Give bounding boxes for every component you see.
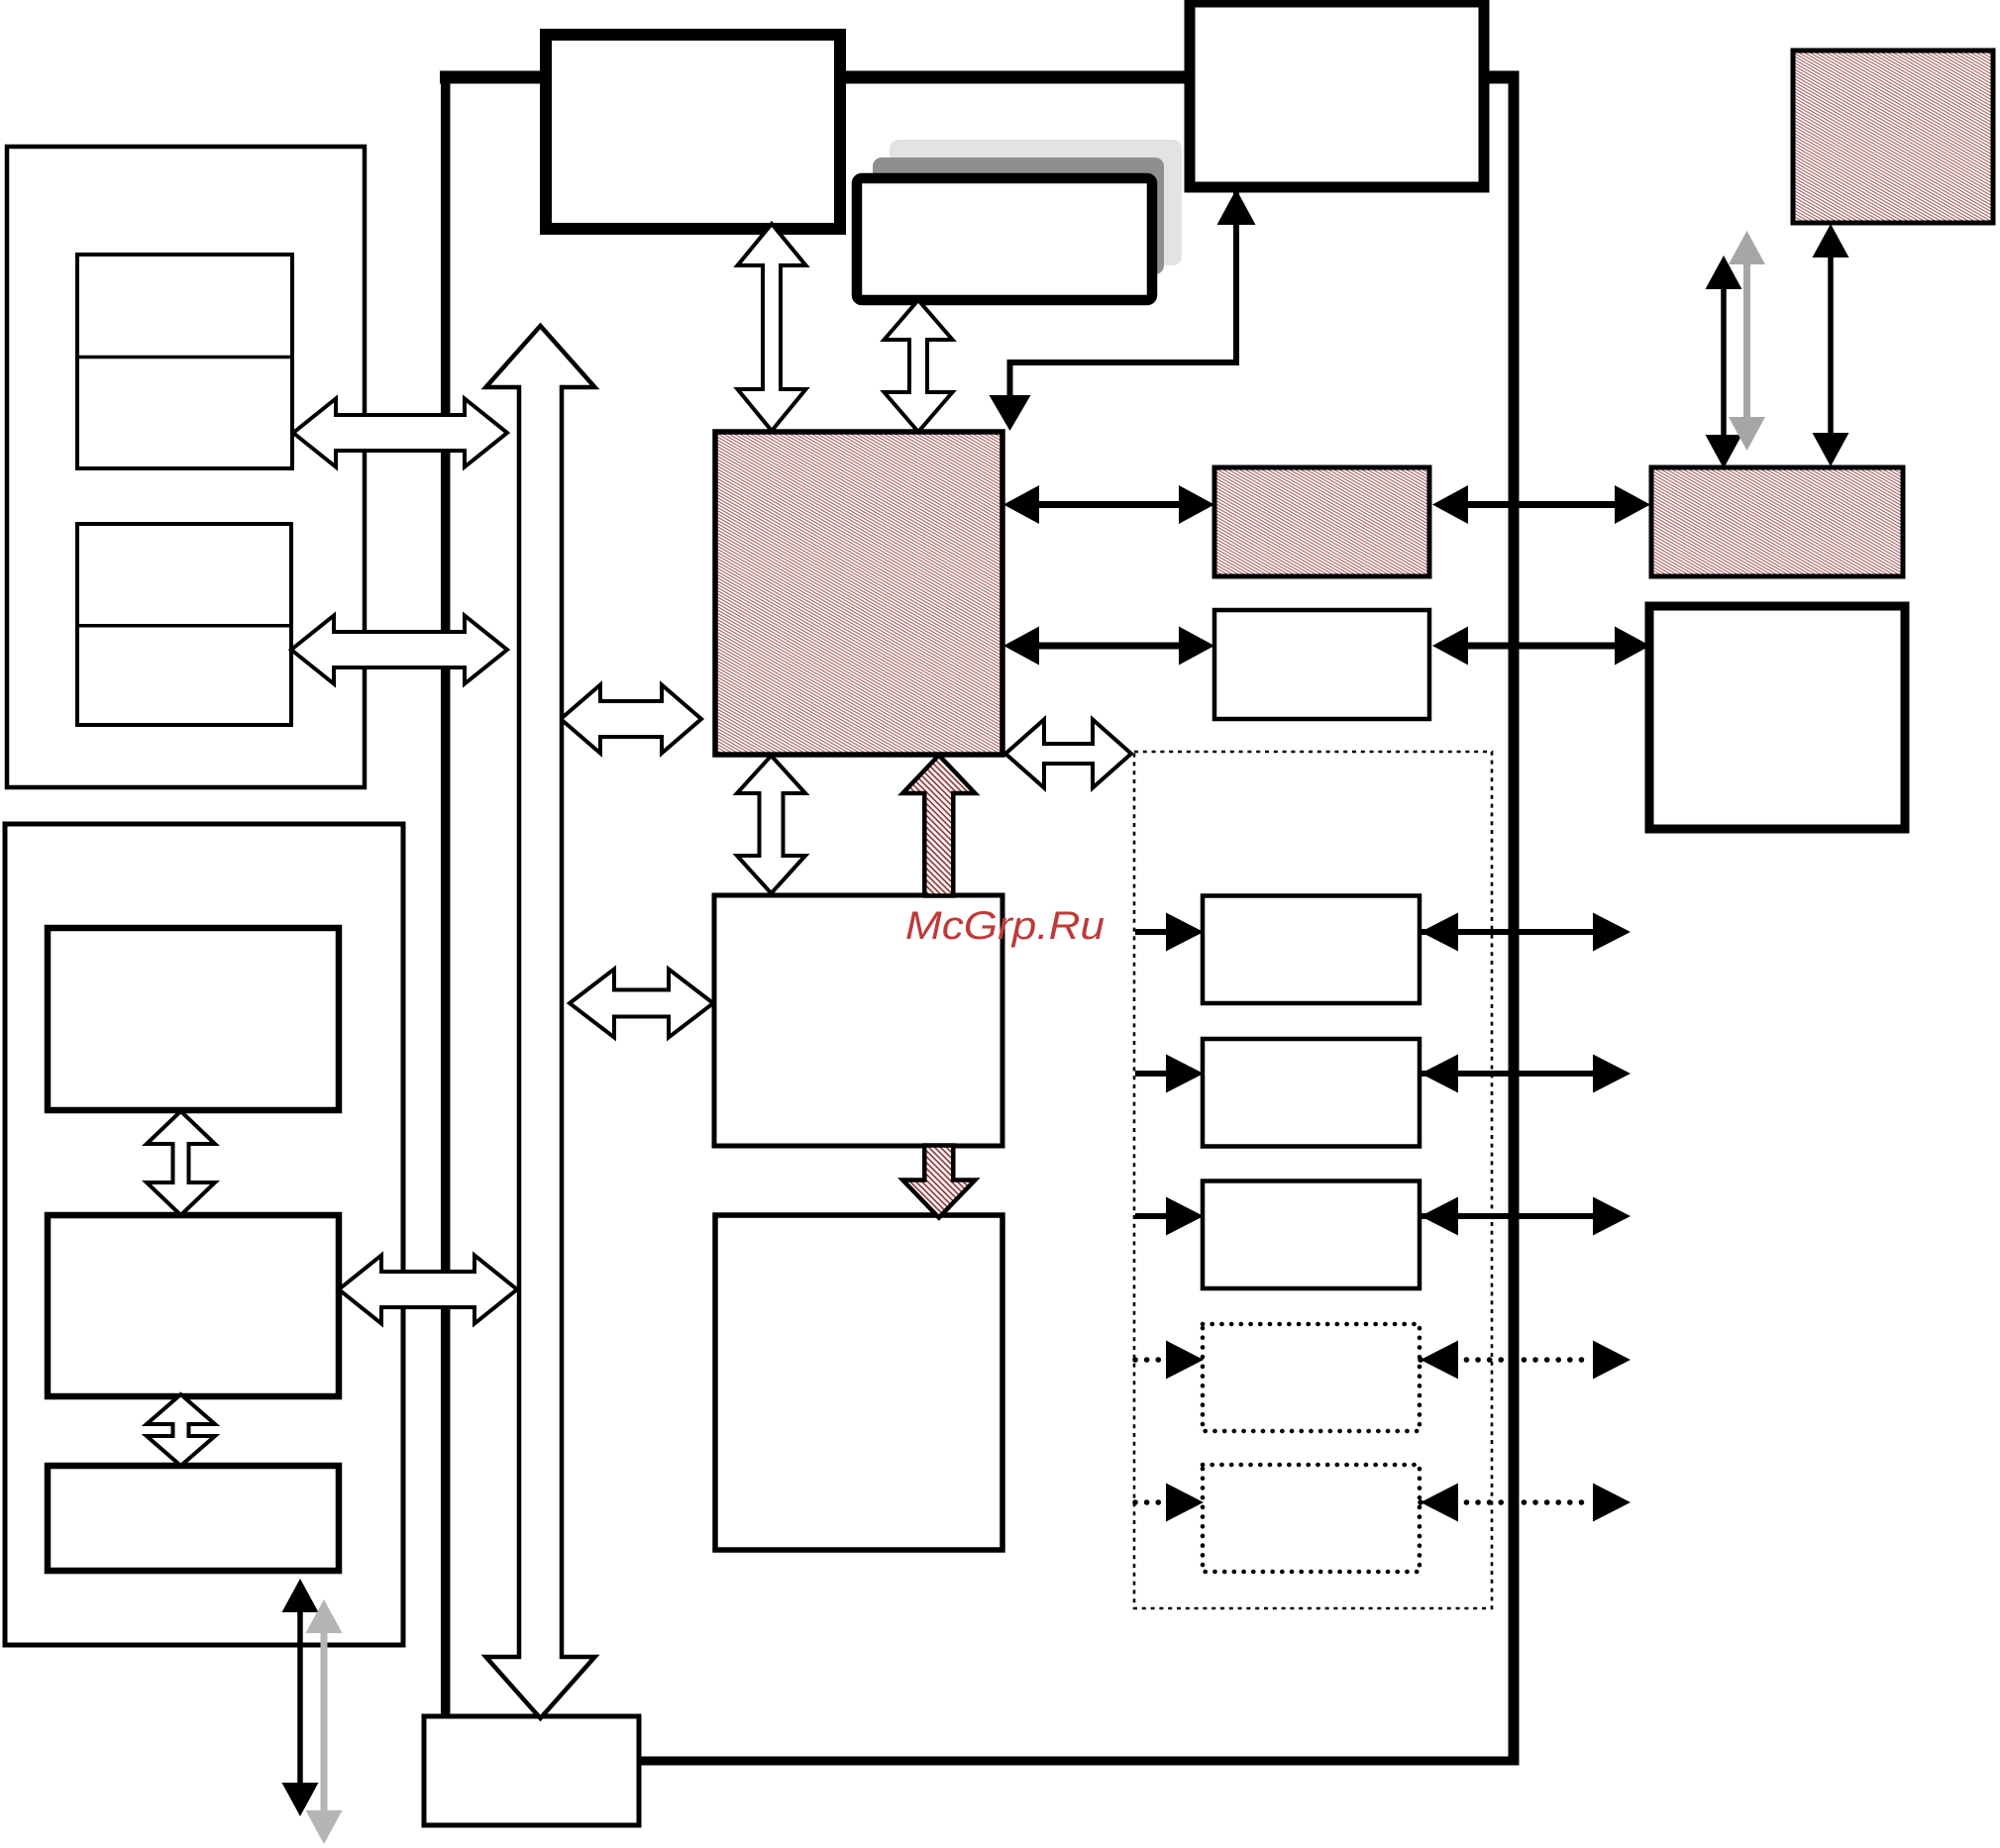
arrow: hatched bridge to hatched right block: [1432, 485, 1650, 524]
arrow: lower-left block2 to block3: [147, 1394, 215, 1466]
box: upper-left split box 2: [77, 524, 291, 725]
box: middle controller block: [714, 895, 1002, 1146]
box: lower-left block 2: [48, 1215, 339, 1396]
arrow: CPU to hatched bridge: [1003, 485, 1214, 524]
arrow: tall bus arrow to CPU left: [561, 685, 701, 754]
arrow: slot 1 to external right: [1421, 913, 1631, 952]
arrow: slot 4 to external right: [1421, 1341, 1631, 1380]
box: stacked white card: [857, 178, 1152, 300]
box: top-right block: [1190, 2, 1484, 187]
box: upper-left split box 1: [77, 255, 292, 468]
container: upper-left module group: [7, 147, 365, 787]
arrow: into slot 3 from left: [1135, 1197, 1204, 1236]
divider in split box 2: [77, 624, 291, 628]
box: expansion slot 2 (solid): [1203, 1039, 1420, 1147]
arrow: lower-left external link (black): [282, 1579, 319, 1816]
arrow: split box 2 to left bus: [291, 616, 507, 684]
shadow: dark gray stacked card: [873, 157, 1164, 274]
box: lower controller block: [715, 1215, 1002, 1550]
arrowhead down into CPU block: [990, 395, 1031, 431]
box: CPU hatched block: [715, 432, 1002, 755]
divider in split box 1: [77, 356, 292, 359]
arrow: black double arrow left of gray: [1706, 256, 1742, 468]
arrow: pink hatched down (controller to lower block): [902, 1146, 975, 1218]
arrow: lower-left block2 to tall bus arrow: [339, 1256, 517, 1324]
arrowhead up into top-right box: [1217, 189, 1256, 225]
box: lower-left block 1: [48, 928, 339, 1110]
arrow: stacked card to CPU: [885, 300, 953, 432]
box: lower-left block 3: [48, 1466, 339, 1571]
shadow: light gray stacked card: [890, 140, 1182, 265]
wire: connector drop to CPU block: [1007, 359, 1013, 398]
wire: connector horizontal segment: [1010, 359, 1234, 365]
box: bottom small interface block: [424, 1716, 639, 1825]
arrow: slot 5 to external right: [1421, 1484, 1631, 1522]
box: expansion slot 4 (dotted): [1203, 1324, 1420, 1431]
arrow: far-right memory to hatched block (black): [1813, 224, 1849, 466]
box: hatched bridge block right: [1651, 467, 1903, 576]
arrow: pink hatched up (controller to CPU): [902, 756, 975, 896]
arrow: lower-left block1 to block2: [147, 1111, 215, 1215]
bus: left vertical system bus: [441, 71, 451, 1720]
arrow: CPU to white bridge: [1003, 627, 1214, 666]
container: lower-left module group: [5, 824, 403, 1645]
arrow: tall vertical bus arrow: [486, 326, 595, 1718]
bus: top horizontal system bus: [440, 71, 1519, 84]
box: hatched bridge block left: [1214, 467, 1429, 576]
box: white bridge block left: [1214, 610, 1429, 719]
arrow: CPU right to dotted group: [1005, 720, 1131, 788]
bus: bottom horizontal system bus: [637, 1757, 1520, 1766]
arrow: tall bus arrow to middle controller: [570, 970, 713, 1038]
box: expansion slot 1 (solid): [1203, 896, 1420, 1004]
arrow: lower-left external link (gray): [306, 1599, 343, 1844]
svg-text:McGrp.Ru: McGrp.Ru: [905, 904, 1105, 948]
box: expansion slot 5 (dotted): [1203, 1465, 1420, 1572]
box: top center block: [546, 35, 840, 229]
bus: right vertical system bus: [1509, 71, 1520, 1762]
box: far-right hatched memory block: [1793, 51, 1993, 223]
box: expansion slot 3 (solid): [1203, 1181, 1420, 1289]
arrow: into slot 2 from left: [1135, 1055, 1204, 1093]
wire: connector from top-right box down: [1233, 191, 1239, 365]
arrow: white bridge to right big block: [1432, 627, 1650, 666]
box: right big peripheral block: [1649, 606, 1905, 829]
arrow: into slot 5 from left: [1135, 1484, 1204, 1522]
arrow: slot 3 to external right: [1421, 1197, 1631, 1236]
arrow: CPU to middle controller: [737, 756, 805, 893]
arrow: top center block to CPU: [738, 224, 806, 431]
arrow: gray double arrow: [1729, 231, 1765, 451]
arrow: into slot 4 from left: [1135, 1341, 1204, 1380]
container: dotted expansion group: [1134, 752, 1492, 1608]
arrow: into slot 1 from left: [1135, 913, 1204, 952]
arrow: split box 1 to left bus: [293, 399, 507, 467]
arrow: slot 2 to external right: [1421, 1055, 1631, 1093]
